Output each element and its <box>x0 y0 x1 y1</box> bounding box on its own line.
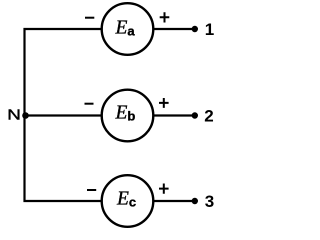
svg-text:3: 3 <box>205 192 214 211</box>
svg-text:2: 2 <box>204 106 213 125</box>
svg-text:N: N <box>7 107 21 123</box>
svg-text:1: 1 <box>205 20 214 39</box>
